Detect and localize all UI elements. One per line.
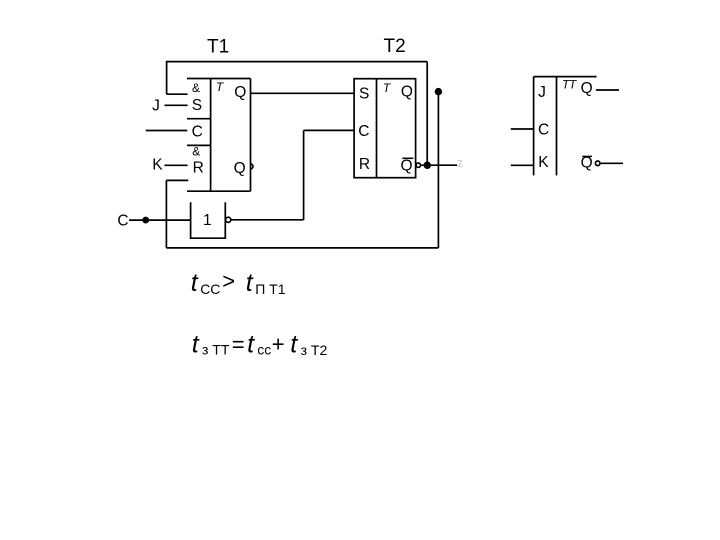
T2 Q-bar inversion bubble [416, 163, 420, 167]
JK flip-flop U3 outline [534, 77, 597, 176]
T1 output Q [234, 84, 246, 101]
wire feedback vertical T2 Q-bar to top rail [426, 62, 428, 166]
wire J input [165, 104, 188, 106]
svg-text:з ТТ: з ТТ [202, 342, 230, 358]
svg-text:S: S [192, 97, 202, 114]
U3 function label TT [562, 78, 578, 92]
T2 pin R [359, 156, 370, 173]
svg-text:C: C [192, 123, 203, 140]
wire C input to inverter [129, 219, 191, 221]
inverter gate D1 outline [191, 202, 226, 238]
T2 output Q [401, 83, 413, 100]
U3 output Q [581, 80, 593, 97]
svg-text:П Т1: П Т1 [255, 281, 286, 297]
svg-text:K: K [152, 157, 163, 174]
input label K [152, 157, 163, 174]
T1 function label T [216, 80, 225, 94]
wire T2 Q-bar output [421, 164, 458, 166]
svg-text:T2: T2 [384, 36, 406, 57]
svg-text:T: T [383, 81, 392, 95]
U3 Q-bar output wire [601, 162, 623, 164]
T1 pin R [193, 160, 204, 177]
formula 1: tcc > tP T1 [191, 269, 286, 297]
stray faint mark [458, 161, 463, 168]
svg-text:T1: T1 [207, 36, 229, 57]
T1 R-group separator [187, 144, 211, 146]
svg-text:S: S [359, 85, 369, 102]
wire right vertical from bottom rail [437, 92, 439, 248]
svg-text:Q: Q [234, 160, 246, 177]
T1 output Q-bar [234, 160, 246, 177]
svg-text:>: > [222, 269, 235, 294]
flip-flop T2 outline [354, 79, 416, 178]
svg-text:TT: TT [562, 78, 578, 92]
svg-text:&: & [192, 81, 200, 95]
svg-text:сс: сс [257, 342, 271, 358]
junction dot on C input wire [143, 218, 148, 223]
U3 input/output divider [556, 77, 558, 176]
svg-text:C: C [117, 212, 128, 229]
U3 output Q-bar [581, 155, 593, 172]
svg-text:з Т2: з Т2 [301, 342, 328, 358]
svg-text:Q: Q [581, 80, 593, 97]
svg-text:J: J [152, 98, 160, 115]
wire left vertical to bottom rail [165, 180, 167, 248]
U3 C input wire [511, 128, 534, 130]
T2 function label T [383, 81, 392, 95]
formula 2: tz TT = tcc + tz T2 [192, 331, 328, 359]
T2 Q-bar overbar [402, 157, 413, 159]
T2 pin S [359, 85, 369, 102]
T1 pin label & (S group) [192, 81, 200, 95]
svg-text:Q: Q [400, 157, 412, 174]
wire left vertical from top rail [166, 61, 168, 94]
svg-text:t: t [192, 331, 200, 359]
svg-text:t: t [191, 269, 199, 297]
label T1 [207, 36, 229, 57]
junction dot top of right vertical [436, 89, 442, 95]
svg-text:T: T [216, 80, 225, 94]
svg-text:+: + [272, 331, 285, 356]
svg-text:J: J [538, 84, 546, 101]
U3 Q-bar overbar [582, 155, 592, 157]
svg-text:t: t [247, 331, 255, 359]
svg-text:&: & [192, 145, 200, 159]
T2 pin C [358, 123, 369, 140]
wire inverter output [231, 219, 304, 221]
T1 S-group separator [187, 118, 211, 120]
T1 pin label & (R group) [192, 145, 200, 159]
svg-text:1: 1 [203, 212, 212, 229]
svg-text:R: R [359, 156, 370, 173]
input label C [117, 212, 128, 229]
svg-text:R: R [193, 160, 204, 177]
wire stub into T1 S-group [167, 93, 188, 95]
T2 output Q-bar [400, 157, 412, 174]
svg-text:=: = [232, 332, 245, 357]
U3 K input wire [511, 164, 534, 166]
svg-text:t: t [246, 269, 254, 297]
U3 pin J [538, 84, 546, 101]
wire bottom feedback rail [166, 247, 438, 249]
wire K input [165, 164, 188, 166]
U3 pin K [538, 154, 549, 171]
wire stub into T1 R-group [166, 179, 188, 181]
wire horizontal into T2 C [304, 129, 355, 131]
T1 Q-bar inversion bubble [251, 164, 253, 169]
wire T1 Q to T2 S [251, 92, 355, 94]
svg-text:K: K [538, 154, 549, 171]
junction dot on T2 Q-bar wire [424, 162, 430, 168]
wire vertical to T2 C [303, 130, 305, 219]
U3 Q output wire [596, 89, 619, 91]
svg-text:C: C [538, 121, 549, 138]
U3 pin C [538, 121, 549, 138]
flip-flop T1 outline [187, 79, 251, 192]
svg-text:СС: СС [200, 281, 220, 297]
wire T1 C stub [146, 130, 188, 132]
T1 input/output divider [210, 79, 212, 192]
svg-text:C: C [358, 123, 369, 140]
T1 pin S [192, 97, 202, 114]
svg-text:Q: Q [401, 83, 413, 100]
label T2 [384, 36, 406, 57]
wire top feedback rail [167, 61, 428, 63]
inverter label 1 [203, 212, 212, 229]
T1 pin C [192, 123, 203, 140]
T2 input/output divider [376, 79, 378, 178]
svg-text:Q: Q [581, 155, 593, 172]
inverter output bubble [226, 217, 231, 222]
svg-text:t: t [290, 331, 298, 359]
U3 Q-bar inversion bubble [595, 161, 600, 166]
svg-text:Q: Q [234, 84, 246, 101]
input label J [152, 98, 160, 115]
